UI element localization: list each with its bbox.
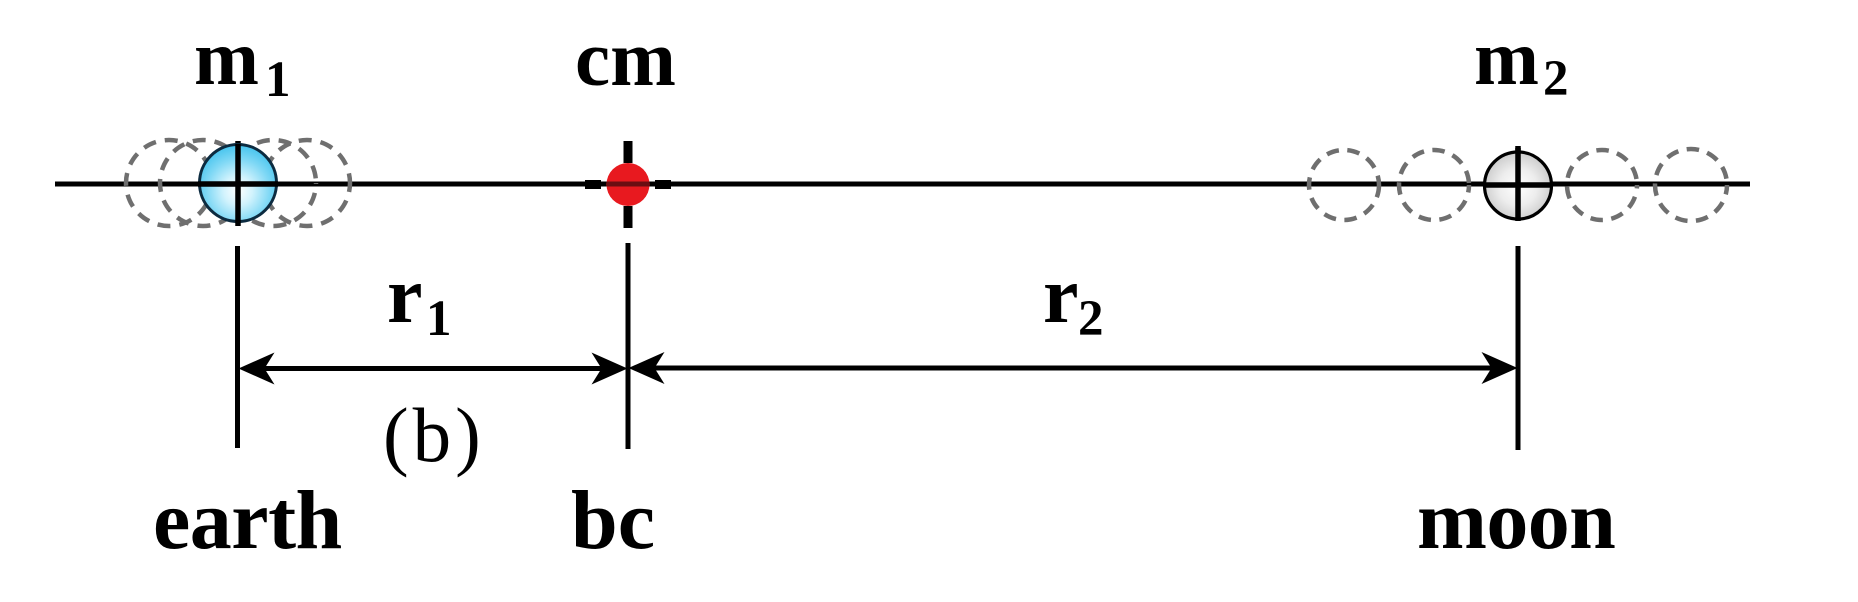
mass m2 moon sphere — [1485, 152, 1552, 219]
cm dashed crosshair: top dash — [624, 141, 633, 163]
svg-text:m: m — [194, 14, 259, 101]
svg-text:2: 2 — [1078, 291, 1104, 347]
cm vertical line — [626, 243, 631, 449]
svg-text:cm: cm — [575, 16, 676, 103]
svg-text:earth: earth — [153, 474, 342, 567]
r2 dimension arrow shaft — [650, 366, 1496, 371]
moon vertical line — [1516, 246, 1521, 450]
svg-text:m: m — [1474, 14, 1539, 101]
center of mass red dot — [607, 163, 650, 206]
svg-text:2: 2 — [1543, 51, 1569, 107]
earth crosshair overdraw vertical — [235, 144, 241, 223]
cm dashed crosshair: left dash — [585, 180, 601, 189]
moon crosshair vertical tick — [1515, 146, 1521, 221]
ghost circle M3 (dashed, near right of moon) — [1567, 150, 1637, 220]
svg-text:1: 1 — [265, 52, 291, 108]
axis line showing through red dot — [607, 182, 649, 187]
r2 right arrowhead — [1482, 352, 1518, 384]
svg-text:r: r — [387, 252, 423, 340]
baseline axis line — [55, 182, 1750, 187]
svg-text:(b): (b) — [383, 392, 485, 478]
cm dashed crosshair: right dash — [655, 180, 671, 189]
ghost circle M2 (dashed, near left of moon) — [1399, 150, 1469, 220]
ghost circle E4 (dashed, right outer of earth) — [264, 140, 350, 226]
r1 dimension arrow shaft — [260, 366, 606, 371]
earth crosshair vertical tick — [235, 141, 241, 226]
earth crosshair overdraw horizontal — [198, 181, 278, 187]
moon crosshair overdraw horizontal — [1483, 182, 1553, 188]
ghost circle M4 (dashed, far right of moon) — [1655, 149, 1727, 221]
cm dashed crosshair: bottom dash — [624, 206, 633, 228]
ghost circle E2 (dashed, left inner of earth) — [160, 140, 246, 226]
svg-text:bc: bc — [571, 474, 655, 567]
ghost circle M1 (dashed, far left of moon) — [1309, 150, 1379, 220]
mass m1 earth sphere — [200, 145, 277, 222]
earth vertical line — [235, 246, 240, 448]
ghost circle E1 (dashed, left outer of earth) — [126, 140, 212, 226]
r2 left arrowhead — [629, 352, 665, 384]
svg-text:moon: moon — [1417, 474, 1615, 567]
moon crosshair overdraw vertical — [1515, 148, 1521, 220]
svg-text:r: r — [1043, 252, 1079, 340]
r1 right arrowhead — [592, 353, 628, 385]
ghost circle E3 (dashed, right inner of earth) — [230, 140, 316, 226]
r1 left arrowhead — [239, 353, 275, 385]
svg-text:1: 1 — [426, 291, 452, 347]
